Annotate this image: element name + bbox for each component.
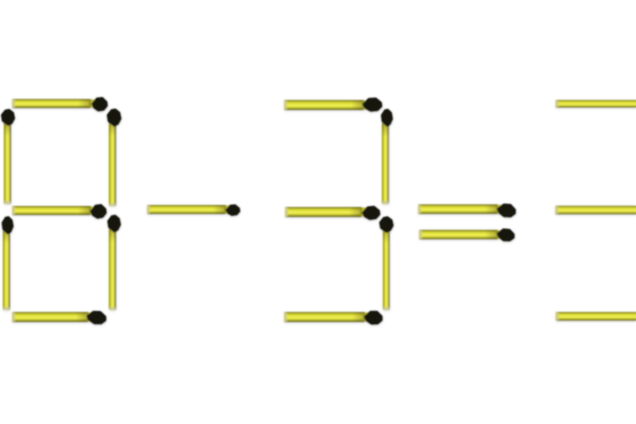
matchstick right-digit middle horizontal segment (cut off) [555, 206, 636, 215]
matchstick D8 bottom-right vertical segment [108, 216, 119, 310]
matchstick right-digit top horizontal segment (cut off) [556, 100, 636, 108]
matchstick D8 top-left vertical segment [2, 110, 14, 204]
matchstick D3 top horizontal segment [284, 98, 381, 111]
matchstick D8 top horizontal segment [12, 98, 107, 111]
matchstick D3 bottom-right vertical segment [380, 217, 392, 310]
matchstick D8 middle horizontal segment [12, 205, 106, 218]
matchstick D8 bottom horizontal segment [12, 310, 106, 324]
matchstick right-digit bottom horizontal segment (cut off) [556, 312, 636, 321]
matchstick D8 bottom-left vertical segment [3, 217, 13, 310]
matchstick D3 middle horizontal segment [285, 207, 379, 220]
matchstick D8 top-right vertical segment [108, 110, 120, 206]
matchstick D3 top-right vertical segment [382, 110, 392, 204]
matchstick equals sign upper [418, 203, 516, 218]
matchstick minus sign [147, 205, 240, 215]
matchstick D3 bottom horizontal segment [284, 311, 382, 325]
matchstick equals sign lower [419, 228, 515, 242]
